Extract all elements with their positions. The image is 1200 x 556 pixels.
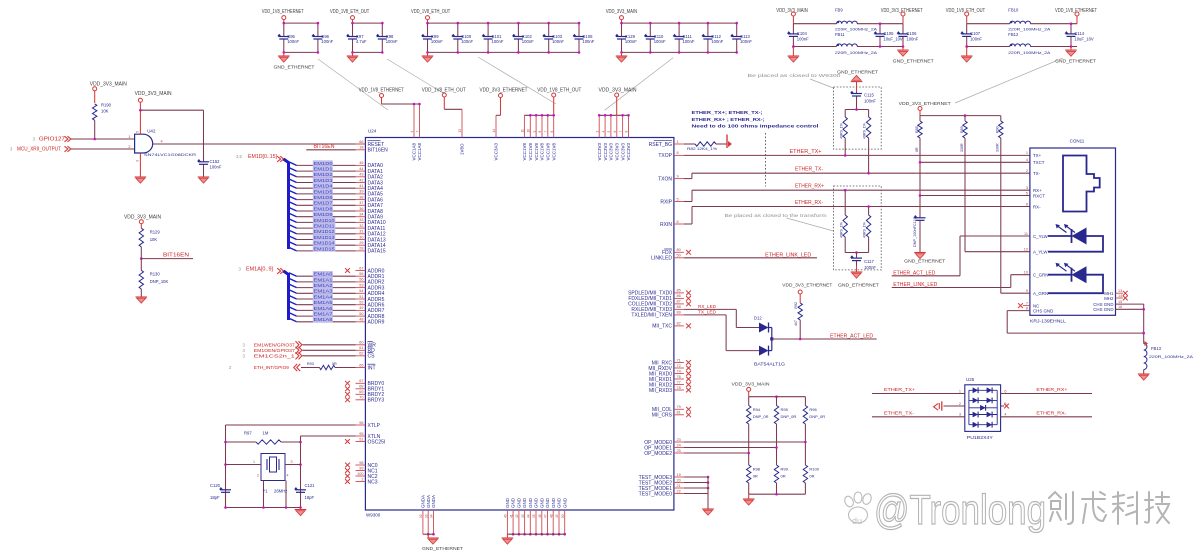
svg-text:du: du: [852, 516, 862, 526]
svg-text:6: 6: [677, 220, 679, 224]
svg-text:VCC1V8: VCC1V8: [534, 142, 539, 160]
svg-text:EM1D7: EM1D7: [314, 201, 334, 206]
svg-text:44: 44: [527, 514, 531, 518]
svg-text:GNDA: GNDA: [426, 495, 431, 508]
svg-text:100nF: 100nF: [797, 37, 809, 42]
svg-text:VDD_3V3_MAIN: VDD_3V3_MAIN: [124, 215, 161, 221]
svg-text:INT: INT: [368, 365, 376, 371]
svg-text:80: 80: [677, 248, 681, 252]
svg-text:37: 37: [359, 201, 363, 205]
svg-text:EM1A7: EM1A7: [314, 312, 334, 317]
svg-text:6: 6: [1004, 389, 1006, 393]
svg-text:VDD_3V3_MAIN: VDD_3V3_MAIN: [606, 9, 638, 15]
svg-text:18pF: 18pF: [305, 495, 315, 500]
svg-text:23: 23: [677, 438, 681, 442]
svg-text:Y1: Y1: [263, 489, 269, 494]
svg-text:C108: C108: [582, 34, 593, 39]
svg-text:ETHER_TX-: ETHER_TX-: [795, 166, 823, 172]
svg-text:ETHER_RX+ ; ETHER_RX-;: ETHER_RX+ ; ETHER_RX-;: [692, 117, 766, 122]
svg-text:R100: R100: [809, 467, 819, 472]
svg-text:EM1D14: EM1D14: [314, 241, 336, 246]
svg-text:FB10: FB10: [1008, 8, 1019, 13]
svg-text:95: 95: [359, 432, 363, 436]
svg-text:VCC3A3: VCC3A3: [494, 142, 499, 160]
svg-text:R82 12K4_1%: R82 12K4_1%: [687, 147, 718, 151]
svg-text:220R_100MHz_2A: 220R_100MHz_2A: [1008, 51, 1051, 55]
svg-text:81: 81: [677, 411, 681, 415]
svg-text:3: 3: [959, 413, 961, 417]
svg-text:EM1A5: EM1A5: [314, 300, 334, 305]
svg-text:1: 1: [1026, 151, 1028, 155]
svg-text:61: 61: [359, 346, 363, 350]
svg-text:26MHz: 26MHz: [274, 489, 287, 494]
svg-text:RXCT: RXCT: [1033, 193, 1045, 198]
svg-text:R97: R97: [244, 431, 252, 436]
svg-text:VDD_3V3_ETHERNET: VDD_3V3_ETHERNET: [480, 88, 528, 94]
svg-text:2: 2: [1026, 169, 1028, 173]
svg-text:43: 43: [521, 514, 525, 518]
svg-text:13: 13: [1118, 289, 1122, 293]
svg-text:R96: R96: [809, 407, 817, 412]
svg-text:67: 67: [359, 379, 363, 383]
svg-text:RXIN: RXIN: [660, 222, 672, 228]
svg-text:R99: R99: [781, 467, 789, 472]
svg-text:EM1D2: EM1D2: [314, 172, 334, 177]
svg-text:TXON: TXON: [658, 176, 672, 182]
svg-text:4: 4: [161, 140, 163, 144]
svg-text:5: 5: [1026, 191, 1028, 195]
svg-text:EM1D3: EM1D3: [314, 178, 334, 183]
svg-text:ETHER_LINK_LED: ETHER_LINK_LED: [893, 282, 937, 288]
svg-text:VDD_1V8_ETHERNET: VDD_1V8_ETHERNET: [262, 9, 304, 15]
svg-text:330R: 330R: [960, 143, 964, 152]
svg-text:14: 14: [1118, 294, 1122, 298]
svg-text:62: 62: [359, 352, 363, 356]
svg-text:0R: 0R: [332, 362, 337, 366]
svg-text:VCC3V3: VCC3V3: [597, 142, 602, 160]
svg-text:2: 2: [361, 477, 363, 481]
svg-text:2: 2: [959, 402, 961, 406]
svg-text:TX-: TX-: [1033, 171, 1041, 176]
svg-text:ETHER_RX-: ETHER_RX-: [795, 200, 823, 206]
svg-text:45: 45: [532, 514, 536, 518]
svg-text:ETHER_TX-: ETHER_TX-: [884, 411, 914, 417]
svg-text:ETHER_RX+: ETHER_RX+: [795, 184, 824, 190]
svg-text:20: 20: [677, 478, 681, 482]
svg-text:5: 5: [607, 131, 611, 133]
svg-text:GND: GND: [534, 497, 539, 508]
svg-text:R93: R93: [307, 362, 314, 366]
svg-text:99: 99: [359, 466, 363, 470]
svg-text:32: 32: [359, 224, 363, 228]
svg-text:29: 29: [359, 241, 363, 245]
svg-text:Need to do 100 ohms impedance: Need to do 100 ohms impedance control: [692, 124, 819, 129]
svg-text:1V8O: 1V8O: [460, 143, 465, 155]
svg-text:38: 38: [359, 195, 363, 199]
svg-text:16: 16: [1118, 305, 1122, 309]
svg-text:VDD_3V3_ETHERNET: VDD_3V3_ETHERNET: [782, 283, 832, 289]
svg-text:49: 49: [555, 514, 559, 518]
svg-text:EM1CS2n_1: EM1CS2n_1: [254, 354, 296, 359]
svg-text:GND: GND: [528, 497, 533, 508]
svg-text:RX-: RX-: [1033, 204, 1041, 209]
svg-text:C_GRN: C_GRN: [1033, 273, 1048, 278]
svg-text:OP_MODE2: OP_MODE2: [644, 451, 672, 457]
svg-text:EM1A6: EM1A6: [314, 306, 334, 311]
svg-text:FB11: FB11: [835, 32, 845, 37]
svg-text:100nF: 100nF: [552, 39, 564, 44]
svg-text:4: 4: [601, 131, 605, 133]
svg-text:VCC3V3: VCC3V3: [603, 142, 608, 160]
svg-text:34: 34: [359, 213, 363, 217]
svg-text:220R_100MHz_2A: 220R_100MHz_2A: [835, 28, 878, 32]
svg-text:100nF: 100nF: [711, 39, 723, 44]
svg-text:65: 65: [359, 363, 363, 367]
svg-text:3: 3: [595, 131, 599, 133]
svg-text:FB12: FB12: [1008, 32, 1019, 37]
svg-text:88: 88: [677, 305, 681, 309]
svg-text:FB9: FB9: [835, 8, 843, 13]
svg-text:3: 3: [136, 160, 140, 162]
svg-text:19: 19: [677, 473, 681, 477]
svg-text:GNDA: GNDA: [421, 495, 426, 508]
svg-text:CS: CS: [368, 354, 376, 360]
svg-text:C112: C112: [711, 34, 721, 39]
svg-text:Be placed as closed to W9300: Be placed as closed to W9300: [748, 73, 842, 78]
svg-text:92: 92: [419, 514, 423, 518]
svg-text:EM1D11: EM1D11: [314, 224, 336, 229]
svg-text:100nF: 100nF: [461, 39, 473, 44]
svg-text:49: 49: [359, 306, 363, 310]
svg-text:79: 79: [677, 405, 681, 409]
svg-text:8: 8: [538, 131, 542, 133]
svg-text:72: 72: [677, 364, 681, 368]
svg-text:15: 15: [1118, 300, 1122, 304]
svg-text:25: 25: [677, 449, 681, 453]
svg-text:9: 9: [532, 131, 536, 133]
svg-text:TX_LED: TX_LED: [698, 309, 717, 314]
svg-text:8: 8: [1026, 306, 1028, 310]
svg-text:96: 96: [359, 421, 363, 425]
svg-text:VCC3V3: VCC3V3: [626, 142, 631, 160]
svg-text:EM1D[0..15]: EM1D[0..15]: [248, 154, 278, 160]
svg-text:MII_CRS: MII_CRS: [652, 413, 673, 419]
svg-text:10: 10: [527, 129, 531, 133]
svg-text:XTLP: XTLP: [368, 423, 381, 429]
svg-text:49R9_1%: 49R9_1%: [863, 221, 867, 238]
svg-text:RX+: RX+: [1033, 188, 1042, 193]
svg-text:LINKLED: LINKLED: [651, 256, 672, 262]
svg-text:R130: R130: [150, 272, 161, 277]
svg-text:52: 52: [359, 301, 363, 305]
svg-text:77: 77: [677, 380, 681, 384]
svg-text:RXIP: RXIP: [660, 199, 672, 205]
svg-text:100nF: 100nF: [210, 164, 222, 169]
svg-text:ADDR9: ADDR9: [368, 320, 385, 326]
svg-text:3,5: 3,5: [236, 154, 242, 159]
svg-text:2: 2: [128, 145, 130, 149]
svg-text:86: 86: [677, 294, 681, 298]
svg-text:D12: D12: [754, 315, 762, 320]
svg-text:93: 93: [424, 514, 428, 518]
svg-text:BIT16EN: BIT16EN: [163, 252, 189, 258]
svg-text:EM1A3: EM1A3: [314, 289, 334, 294]
svg-text:66: 66: [359, 140, 363, 144]
svg-text:C96: C96: [321, 34, 329, 39]
svg-text:TXCT: TXCT: [1033, 160, 1045, 165]
svg-text:C_YLW: C_YLW: [1033, 234, 1049, 239]
svg-text:6: 6: [1026, 202, 1028, 206]
svg-text:GND: GND: [551, 497, 556, 508]
svg-text:ETHER_LINK_LED: ETHER_LINK_LED: [765, 252, 811, 258]
svg-text:VCC3V3: VCC3V3: [620, 142, 625, 160]
svg-text:100nF: 100nF: [287, 39, 299, 44]
svg-text:VCC3V3: VCC3V3: [615, 142, 620, 160]
svg-text:C115: C115: [864, 92, 874, 97]
svg-text:31: 31: [359, 230, 363, 234]
svg-text:46: 46: [538, 514, 542, 518]
svg-text:ETHER_RX+: ETHER_RX+: [1036, 387, 1067, 393]
svg-text:GND: GND: [517, 497, 522, 508]
svg-text:C95: C95: [287, 34, 295, 39]
svg-text:VCC1A8: VCC1A8: [417, 142, 422, 160]
svg-text:VDD_3V3_ETHERNET: VDD_3V3_ETHERNET: [899, 101, 951, 107]
svg-text:C110: C110: [654, 34, 664, 39]
svg-text:9: 9: [677, 174, 679, 178]
svg-text:8: 8: [625, 131, 629, 133]
svg-text:40: 40: [504, 514, 508, 518]
svg-text:C113: C113: [740, 34, 750, 39]
svg-text:39: 39: [359, 190, 363, 194]
svg-text:C114: C114: [1074, 31, 1084, 36]
svg-text:100nF: 100nF: [386, 39, 398, 44]
svg-text:6: 6: [550, 131, 554, 133]
svg-text:GND_ETHERNET: GND_ETHERNET: [422, 546, 463, 552]
svg-text:1: 1: [128, 135, 130, 139]
svg-text:DNP_0R: DNP_0R: [753, 414, 769, 419]
svg-text:GND: GND: [539, 497, 544, 508]
svg-text:C98: C98: [386, 34, 394, 39]
svg-text:C129: C129: [625, 34, 636, 39]
svg-text:GND_ETHERNET: GND_ETHERNET: [1055, 58, 1096, 64]
svg-text:0R: 0R: [781, 474, 786, 479]
svg-text:5: 5: [136, 131, 140, 133]
svg-text:48: 48: [549, 514, 553, 518]
svg-text:43: 43: [359, 173, 363, 177]
svg-text:TEST_MODE0: TEST_MODE0: [639, 491, 673, 497]
svg-text:C105: C105: [883, 31, 894, 36]
svg-text:51: 51: [359, 437, 363, 441]
svg-text:9: 9: [1026, 289, 1028, 293]
svg-text:18: 18: [359, 146, 363, 150]
svg-text:330R: 330R: [996, 143, 1000, 152]
svg-text:DNP_0R: DNP_0R: [781, 414, 797, 419]
svg-text:100nF: 100nF: [740, 39, 752, 44]
svg-text:87: 87: [677, 300, 681, 304]
svg-text:100nF: 100nF: [431, 39, 443, 44]
svg-text:5: 5: [677, 197, 679, 201]
svg-text:GND: GND: [557, 497, 562, 508]
svg-text:ETHER_RX-: ETHER_RX-: [1036, 411, 1066, 417]
svg-text:74: 74: [677, 369, 681, 373]
svg-text:VCC1V8: VCC1V8: [551, 142, 556, 160]
svg-text:49R9_1%: 49R9_1%: [863, 122, 867, 139]
svg-text:100nF: 100nF: [625, 39, 637, 44]
svg-text:1: 1: [677, 140, 679, 144]
svg-text:GND: GND: [522, 497, 527, 508]
svg-text:3: 3: [1026, 186, 1028, 190]
svg-text:C121: C121: [305, 483, 316, 488]
svg-text:68: 68: [359, 385, 363, 389]
svg-text:EM1D5: EM1D5: [314, 189, 334, 194]
svg-text:KRJ-139EHNLL: KRJ-139EHNLL: [1030, 319, 1067, 324]
svg-text:GPIO127: GPIO127: [39, 136, 65, 142]
svg-text:41: 41: [509, 514, 513, 518]
svg-text:GND: GND: [562, 497, 567, 508]
svg-text:GND: GND: [505, 497, 510, 508]
svg-text:42: 42: [515, 514, 519, 518]
svg-text:220R_100MHz_2A: 220R_100MHz_2A: [1008, 28, 1051, 32]
svg-text:U24: U24: [368, 129, 377, 134]
svg-text:VDD_3V3_MAIN: VDD_3V3_MAIN: [599, 88, 637, 94]
svg-text:50: 50: [359, 312, 363, 316]
svg-text:TX+: TX+: [1033, 153, 1042, 158]
svg-text:C117: C117: [864, 259, 874, 264]
svg-text:100nF: 100nF: [522, 39, 534, 44]
svg-text:33: 33: [359, 218, 363, 222]
svg-text:VDD_3V3_MAIN: VDD_3V3_MAIN: [732, 381, 771, 387]
svg-text:BIT16EN: BIT16EN: [368, 148, 389, 154]
svg-text:C111: C111: [683, 34, 693, 39]
svg-text:GND_ETHERNET: GND_ETHERNET: [837, 70, 878, 76]
svg-text:100nF: 100nF: [906, 37, 918, 42]
svg-text:4: 4: [287, 474, 289, 478]
svg-text:10uF_10V: 10uF_10V: [883, 37, 903, 42]
svg-text:30: 30: [359, 235, 363, 239]
svg-text:5: 5: [1004, 402, 1006, 406]
svg-text:220R_100MHz_2A: 220R_100MHz_2A: [835, 51, 878, 55]
svg-text:4: 4: [410, 131, 414, 133]
svg-text:ETHER_TX+; ETHER_TX-;: ETHER_TX+; ETHER_TX-;: [692, 110, 764, 115]
svg-text:100nF: 100nF: [492, 39, 504, 44]
svg-text:ETH_INT/GPIO9: ETH_INT/GPIO9: [254, 365, 289, 370]
svg-text:EM1D1: EM1D1: [314, 167, 334, 172]
svg-text:R89: R89: [960, 126, 964, 133]
svg-text:49R9_1%: 49R9_1%: [839, 122, 843, 139]
svg-text:A_GRN: A_GRN: [1033, 291, 1048, 296]
svg-text:DNP_100nFC119: DNP_100nFC119: [913, 217, 917, 247]
svg-text:U25: U25: [966, 377, 975, 382]
svg-text:U42: U42: [147, 129, 156, 134]
svg-text:DATA15: DATA15: [368, 249, 386, 255]
svg-text:4: 4: [1004, 413, 1006, 417]
svg-text:C120: C120: [210, 483, 221, 488]
svg-text:GND_ETHERNET: GND_ETHERNET: [838, 283, 879, 289]
svg-text:100nF: 100nF: [970, 37, 982, 42]
svg-text:EM1A0: EM1A0: [314, 272, 334, 277]
svg-text:R90: R90: [996, 126, 1000, 133]
svg-text:94: 94: [430, 514, 434, 518]
svg-text:R129: R129: [150, 230, 161, 235]
svg-text:R92: R92: [794, 302, 798, 309]
svg-text:7: 7: [619, 131, 623, 133]
svg-text:BIT16EN: BIT16EN: [314, 144, 335, 150]
svg-text:GND: GND: [511, 497, 516, 508]
svg-text:VDD_1V8_ETH_OUT: VDD_1V8_ETH_OUT: [411, 9, 450, 15]
svg-text:67: 67: [359, 266, 363, 270]
svg-text:48: 48: [359, 318, 363, 322]
svg-text:69: 69: [359, 390, 363, 394]
svg-text:EM1D6: EM1D6: [314, 195, 334, 200]
svg-text:47: 47: [544, 514, 548, 518]
svg-text:11: 11: [1024, 232, 1028, 236]
svg-text:7: 7: [416, 131, 420, 133]
svg-text:CON11: CON11: [1070, 139, 1085, 144]
svg-text:EM1D15: EM1D15: [314, 246, 336, 251]
svg-text:C107: C107: [970, 31, 981, 36]
svg-text:EM1D10: EM1D10: [314, 218, 336, 223]
svg-text:100nF: 100nF: [683, 39, 695, 44]
svg-text:100nF: 100nF: [582, 39, 594, 44]
svg-text:85: 85: [677, 289, 681, 293]
svg-text:EM1D4: EM1D4: [314, 184, 334, 189]
svg-text:1M: 1M: [263, 431, 269, 436]
svg-text:18pF: 18pF: [210, 495, 220, 500]
svg-text:ETHER_TX+: ETHER_TX+: [884, 387, 915, 393]
svg-text:VDD_1V8_ETHERNET: VDD_1V8_ETHERNET: [359, 88, 404, 94]
svg-text:EM1D8: EM1D8: [314, 206, 334, 211]
svg-text:C99: C99: [431, 34, 439, 39]
svg-text:42: 42: [359, 178, 363, 182]
svg-text:60: 60: [359, 341, 363, 345]
svg-text:24: 24: [677, 443, 681, 447]
svg-text:VCC1A8: VCC1A8: [412, 142, 417, 160]
svg-text:71: 71: [677, 358, 681, 362]
svg-text:VDD_1V8_ETH_OUT: VDD_1V8_ETH_OUT: [537, 88, 581, 94]
svg-text:51: 51: [359, 295, 363, 299]
svg-text:1: 1: [959, 389, 961, 393]
svg-text:DNP_0R: DNP_0R: [809, 414, 825, 419]
svg-text:98: 98: [359, 461, 363, 465]
svg-text:VDD_1V8_ETH_OUT: VDD_1V8_ETH_OUT: [330, 9, 369, 15]
svg-text:1: 1: [253, 460, 255, 464]
svg-text:28: 28: [359, 247, 363, 251]
svg-text:EM1A4: EM1A4: [314, 294, 334, 299]
svg-text:21: 21: [677, 484, 681, 488]
svg-text:TXOP: TXOP: [658, 153, 672, 159]
svg-text:12: 12: [1024, 248, 1028, 252]
svg-text:BAT54ALT1G: BAT54ALT1G: [754, 361, 785, 366]
svg-text:GND_ETHERNET: GND_ETHERNET: [904, 259, 945, 265]
svg-text:50: 50: [561, 514, 565, 518]
svg-text:7: 7: [544, 131, 548, 133]
svg-text:53: 53: [359, 283, 363, 287]
svg-text:70: 70: [359, 396, 363, 400]
svg-text:VDD_3V3_MAIN: VDD_3V3_MAIN: [135, 91, 172, 97]
svg-text:C104: C104: [797, 31, 808, 36]
svg-text:GND_ETHERNET: GND_ETHERNET: [274, 65, 315, 71]
svg-text:SN74LVC1G08DCKR: SN74LVC1G08DCKR: [144, 152, 196, 157]
svg-text:ETHER_ACT_LED: ETHER_ACT_LED: [893, 270, 935, 276]
svg-text:TXLED/MII_TXEN: TXLED/MII_TXEN: [631, 313, 672, 319]
svg-text:EM1D0: EM1D0: [314, 161, 334, 166]
svg-text:46: 46: [359, 161, 363, 165]
svg-text:FB13: FB13: [1151, 346, 1162, 351]
svg-text:2: 2: [257, 474, 259, 478]
svg-text:0R: 0R: [809, 474, 814, 479]
svg-text:89: 89: [677, 311, 681, 315]
svg-text:EM1D13: EM1D13: [314, 235, 336, 240]
